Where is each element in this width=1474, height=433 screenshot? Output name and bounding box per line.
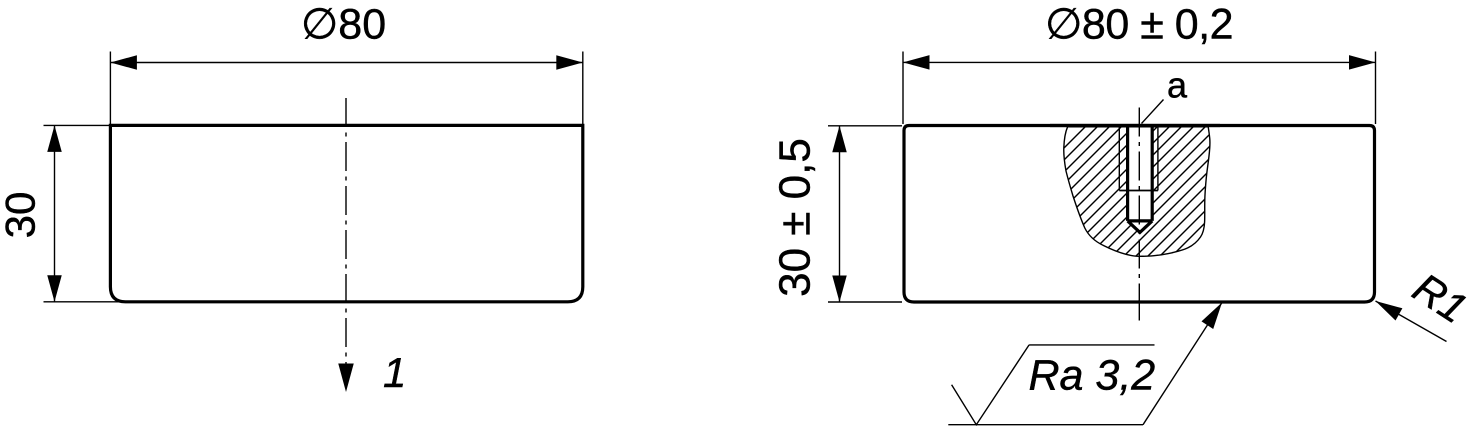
svg-text:∅80 ± 0,2: ∅80 ± 0,2 — [1045, 1, 1233, 49]
surface finish check mark — [952, 345, 1030, 425]
extension line top (30±0,5) — [828, 125, 902, 127]
right view: cylinder outline (section view) — [904, 126, 1375, 303]
right view centerline through hole — [1138, 108, 1140, 303]
extension line bottom (30) — [44, 301, 123, 303]
dim line Ø80 (left view) — [110, 62, 582, 64]
leader for R1 — [1376, 301, 1447, 342]
extension line left (right view) — [902, 52, 904, 125]
extension line left — [109, 52, 111, 125]
surface finish top line — [1029, 344, 1154, 346]
thread end line — [1119, 190, 1158, 192]
surface finish leader — [1143, 303, 1222, 425]
svg-text:30: 30 — [0, 192, 44, 239]
extension line bottom (30±0,5) — [828, 301, 902, 303]
svg-text:1: 1 — [383, 349, 406, 396]
extension line right — [582, 52, 584, 125]
white-out of tapped hole interior — [1128, 124, 1153, 232]
svg-text:Ra 3,2: Ra 3,2 — [1029, 352, 1156, 400]
tapped hole core lines (thick) — [1126, 126, 1129, 221]
dim line 30±0,5 — [839, 126, 841, 302]
centerline tail below bottom edge — [1138, 300, 1140, 321]
extension line right (right view) — [1375, 52, 1377, 125]
dim line Ø80±0,2 (right view) — [903, 61, 1376, 63]
surface finish symbol shelf — [948, 424, 1143, 426]
left view: cylinder outline — [110, 125, 582, 301]
svg-text:a: a — [1167, 65, 1188, 106]
drill point cone — [1128, 221, 1153, 233]
redraw top edge over blob junction — [1050, 124, 1220, 127]
extension line top (30) — [44, 124, 110, 126]
svg-text:∅80: ∅80 — [301, 1, 386, 49]
dim line 30 (left view) — [54, 125, 56, 301]
centerline direction arrow (view direction) — [338, 364, 354, 393]
thread major diameter lines (thin) — [1118, 126, 1120, 191]
section boundary (freehand break line) — [1064, 127, 1210, 256]
leader line for a — [1142, 100, 1164, 124]
svg-text:30 ± 0,5: 30 ± 0,5 — [771, 138, 820, 297]
left view vertical centerline (axis) — [345, 98, 347, 364]
